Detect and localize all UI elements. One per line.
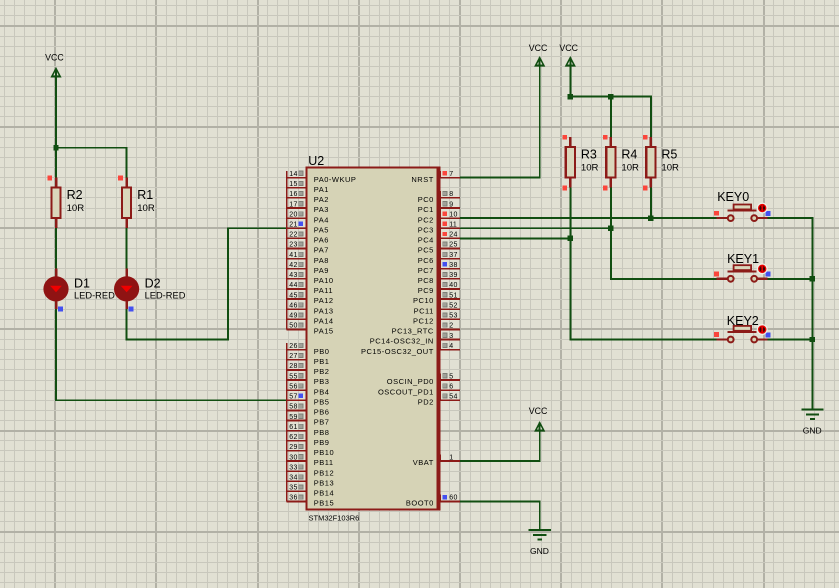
svg-text:53: 53	[449, 313, 457, 320]
svg-text:49: 49	[289, 313, 297, 320]
svg-text:PA15: PA15	[314, 327, 334, 336]
svg-text:3: 3	[449, 333, 453, 340]
svg-text:PB12: PB12	[314, 468, 334, 477]
svg-text:22: 22	[289, 232, 297, 239]
svg-text:VBAT: VBAT	[413, 458, 434, 467]
svg-text:15: 15	[289, 181, 297, 188]
svg-text:KEY1: KEY1	[727, 252, 759, 266]
svg-text:PC8: PC8	[418, 276, 434, 285]
svg-text:PA5: PA5	[314, 225, 329, 234]
svg-text:U2: U2	[308, 154, 324, 168]
svg-text:PA3: PA3	[314, 205, 329, 214]
svg-text:BOOT0: BOOT0	[406, 499, 434, 508]
svg-text:20: 20	[289, 211, 297, 218]
svg-text:PB2: PB2	[314, 367, 330, 376]
svg-text:10R: 10R	[137, 203, 155, 214]
svg-text:PB4: PB4	[314, 387, 330, 396]
svg-text:23: 23	[289, 242, 297, 249]
svg-text:37: 37	[449, 252, 457, 259]
svg-text:36: 36	[289, 495, 297, 502]
svg-text:PA11: PA11	[314, 286, 333, 295]
svg-text:PC14-OSC32_IN: PC14-OSC32_IN	[370, 337, 434, 346]
svg-text:56: 56	[289, 383, 297, 390]
svg-text:PC3: PC3	[418, 225, 434, 234]
svg-text:PC15-OSC32_OUT: PC15-OSC32_OUT	[361, 347, 434, 356]
svg-text:26: 26	[289, 343, 297, 350]
svg-text:VCC: VCC	[559, 43, 578, 53]
svg-text:PB9: PB9	[314, 438, 330, 447]
svg-text:PB10: PB10	[314, 448, 334, 457]
svg-text:21: 21	[289, 222, 297, 229]
svg-text:7: 7	[449, 171, 453, 178]
svg-text:2: 2	[449, 323, 453, 330]
svg-text:VCC: VCC	[529, 406, 548, 416]
svg-text:PA4: PA4	[314, 215, 329, 224]
svg-text:PC2: PC2	[418, 215, 434, 224]
svg-text:PC5: PC5	[418, 246, 434, 255]
svg-text:17: 17	[289, 201, 297, 208]
svg-text:R5: R5	[661, 148, 677, 162]
svg-text:PA0-WKUP: PA0-WKUP	[314, 175, 357, 184]
svg-text:43: 43	[289, 272, 297, 279]
svg-text:52: 52	[449, 303, 457, 310]
svg-text:57: 57	[289, 394, 297, 401]
svg-text:R1: R1	[137, 188, 153, 202]
svg-text:10R: 10R	[67, 203, 85, 214]
svg-text:29: 29	[289, 444, 297, 451]
svg-text:10R: 10R	[581, 162, 599, 173]
svg-text:STM32F103R6: STM32F103R6	[309, 513, 360, 522]
svg-text:PC9: PC9	[418, 286, 434, 295]
svg-text:58: 58	[289, 404, 297, 411]
svg-text:LED-RED: LED-RED	[74, 291, 115, 301]
svg-text:D1: D1	[74, 277, 90, 291]
svg-text:PA13: PA13	[314, 306, 334, 315]
svg-text:PA10: PA10	[314, 276, 334, 285]
svg-text:45: 45	[289, 292, 297, 299]
svg-text:28: 28	[289, 363, 297, 370]
svg-text:R3: R3	[581, 148, 597, 162]
svg-text:PB8: PB8	[314, 428, 330, 437]
svg-text:PB11: PB11	[314, 458, 334, 467]
svg-text:KEY2: KEY2	[727, 314, 759, 328]
svg-text:62: 62	[289, 434, 297, 441]
svg-text:PB7: PB7	[314, 418, 330, 427]
svg-text:PB15: PB15	[314, 499, 334, 508]
svg-text:55: 55	[289, 373, 297, 380]
svg-text:46: 46	[289, 303, 297, 310]
svg-text:PA2: PA2	[314, 195, 329, 204]
svg-text:1: 1	[449, 454, 453, 461]
svg-text:35: 35	[289, 485, 297, 492]
svg-text:PC4: PC4	[418, 236, 434, 245]
svg-text:PB13: PB13	[314, 478, 334, 487]
svg-text:OSCIN_PD0: OSCIN_PD0	[387, 377, 434, 386]
svg-text:PB0: PB0	[314, 347, 330, 356]
svg-text:R2: R2	[67, 188, 83, 202]
svg-text:PA6: PA6	[314, 236, 329, 245]
svg-text:54: 54	[449, 394, 457, 401]
svg-text:5: 5	[449, 373, 453, 380]
svg-text:30: 30	[289, 454, 297, 461]
svg-text:OSCOUT_PD1: OSCOUT_PD1	[378, 387, 434, 396]
svg-text:24: 24	[449, 232, 457, 239]
svg-text:PC11: PC11	[414, 306, 434, 315]
svg-text:61: 61	[289, 424, 297, 431]
svg-text:4: 4	[449, 343, 453, 350]
svg-text:R4: R4	[621, 148, 637, 162]
svg-text:11: 11	[449, 222, 457, 229]
svg-text:PA8: PA8	[314, 256, 329, 265]
svg-text:PB3: PB3	[314, 377, 330, 386]
svg-text:16: 16	[289, 191, 297, 198]
svg-text:PC10: PC10	[413, 296, 434, 305]
svg-text:42: 42	[289, 262, 297, 269]
svg-text:PC1: PC1	[418, 205, 434, 214]
svg-text:VCC: VCC	[45, 52, 64, 62]
svg-text:51: 51	[449, 292, 457, 299]
svg-text:14: 14	[289, 171, 297, 178]
svg-text:PD2: PD2	[418, 397, 434, 406]
svg-text:38: 38	[449, 262, 457, 269]
svg-text:10R: 10R	[621, 162, 639, 173]
svg-text:PB6: PB6	[314, 408, 330, 417]
svg-text:PC13_RTC: PC13_RTC	[392, 327, 434, 336]
svg-text:PB1: PB1	[314, 357, 330, 366]
svg-text:PC12: PC12	[413, 317, 434, 326]
svg-text:59: 59	[289, 414, 297, 421]
svg-text:40: 40	[449, 282, 457, 289]
svg-text:39: 39	[449, 272, 457, 279]
svg-text:PA12: PA12	[314, 296, 334, 305]
svg-text:PA1: PA1	[314, 185, 329, 194]
svg-text:PC6: PC6	[418, 256, 434, 265]
svg-text:27: 27	[289, 353, 297, 360]
svg-text:KEY0: KEY0	[717, 190, 749, 204]
svg-text:33: 33	[289, 464, 297, 471]
svg-text:34: 34	[289, 475, 297, 482]
svg-text:LED-RED: LED-RED	[145, 291, 186, 301]
svg-text:NRST: NRST	[411, 175, 433, 184]
svg-text:GND: GND	[530, 546, 549, 556]
svg-text:PC7: PC7	[418, 266, 434, 275]
svg-text:PA14: PA14	[314, 317, 334, 326]
svg-text:6: 6	[449, 383, 453, 390]
svg-text:60: 60	[449, 495, 457, 502]
svg-text:PA7: PA7	[314, 246, 329, 255]
svg-text:PA9: PA9	[314, 266, 329, 275]
svg-text:9: 9	[449, 201, 453, 208]
svg-text:VCC: VCC	[529, 43, 548, 53]
svg-text:D2: D2	[145, 277, 161, 291]
svg-text:GND: GND	[803, 426, 822, 436]
svg-text:41: 41	[289, 252, 297, 259]
svg-text:44: 44	[289, 282, 297, 289]
svg-text:PC0: PC0	[418, 195, 434, 204]
svg-text:10R: 10R	[661, 162, 679, 173]
svg-text:50: 50	[289, 323, 297, 330]
svg-text:PB5: PB5	[314, 397, 330, 406]
svg-text:PB14: PB14	[314, 489, 334, 498]
svg-text:8: 8	[449, 191, 453, 198]
svg-text:25: 25	[449, 242, 457, 249]
svg-text:10: 10	[449, 211, 457, 218]
